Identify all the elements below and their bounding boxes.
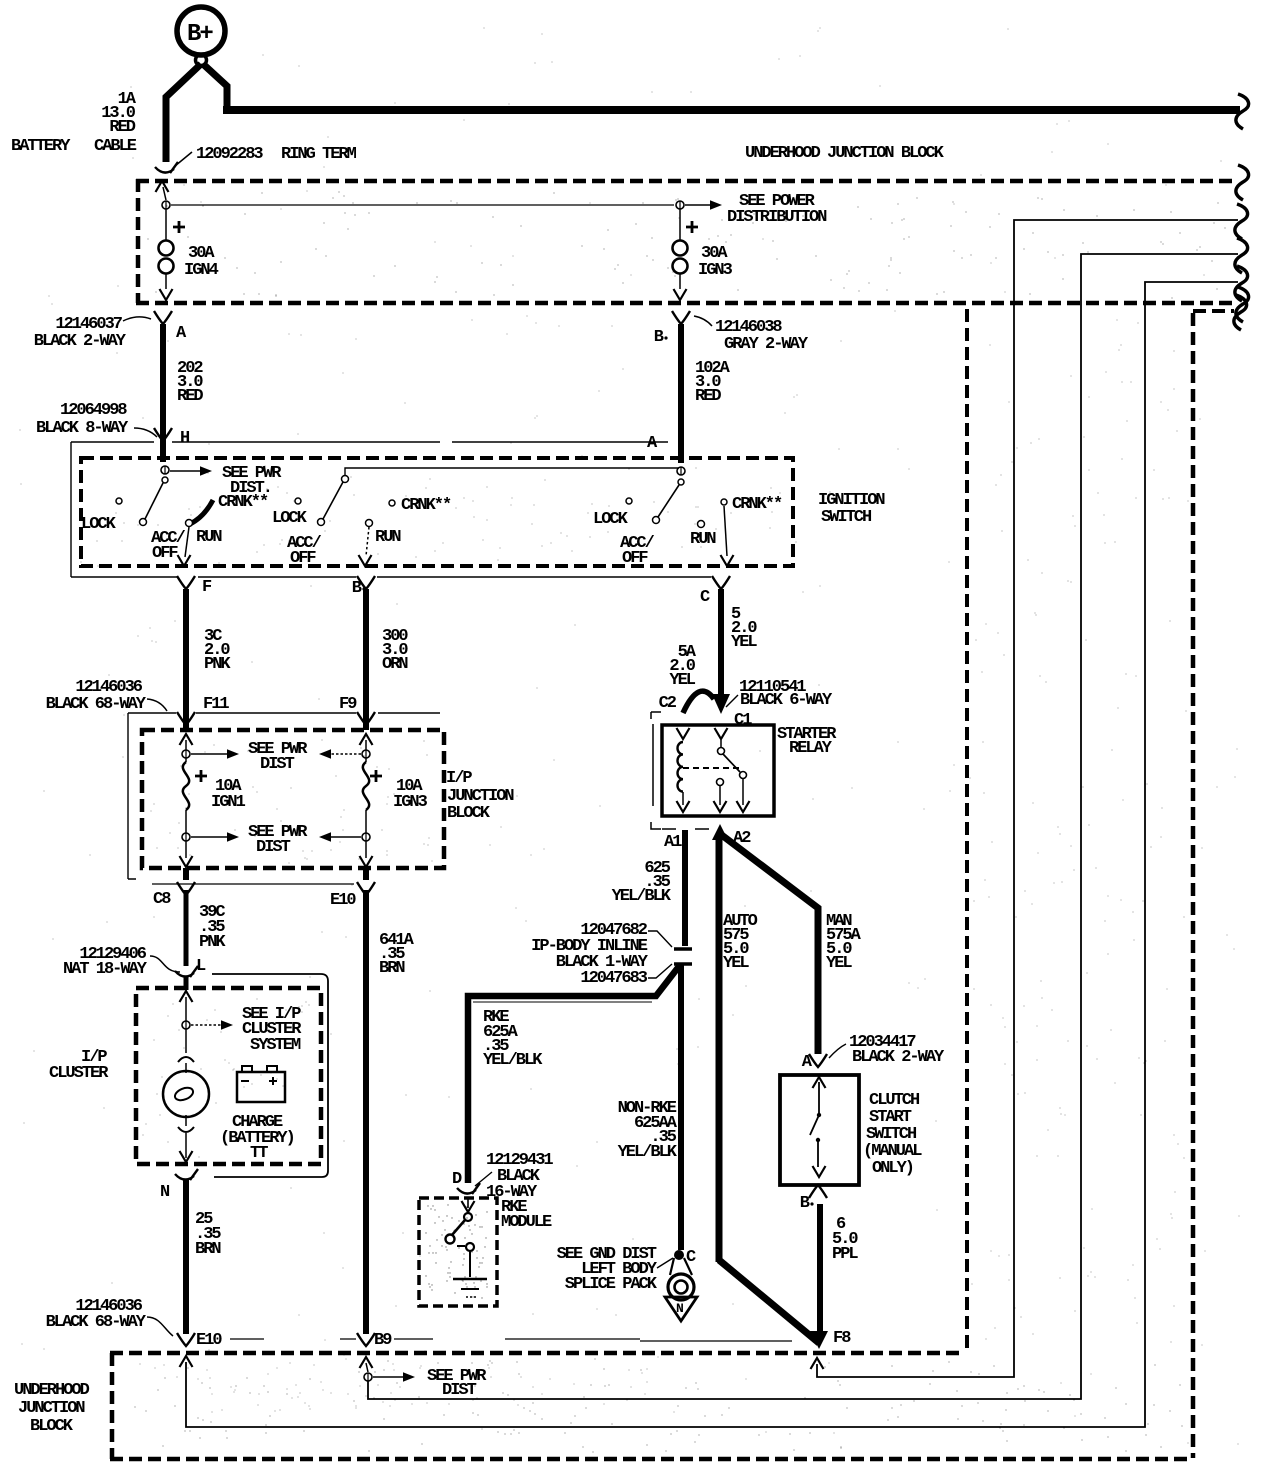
fuse 30A IGN4 [159, 209, 219, 300]
RKE module switch [467, 1199, 469, 1208]
svg-text:BLACK 2-WAY: BLACK 2-WAY [852, 1048, 945, 1067]
svg-text:C8: C8 [153, 890, 171, 909]
wire battery cable 1A 13.0 RED (left leg) [166, 64, 201, 162]
svg-text:BLOCK: BLOCK [447, 804, 491, 823]
connector face line (I/P JB top) [128, 712, 440, 714]
connector face line (bottom) [230, 1339, 792, 1341]
svg-text:YEL/BLK: YEL/BLK [618, 1143, 678, 1162]
underhood junction block (bottom) dashed outline [110, 1351, 965, 1356]
I/P junction block dashed box [142, 730, 444, 868]
wire bus to IGN3 fuse [171, 204, 674, 206]
svg-text:DIST: DIST [260, 755, 295, 774]
relay linkage (dashed) [683, 767, 742, 769]
svg-text:F8: F8 [833, 1329, 851, 1348]
svg-text:IGN3: IGN3 [698, 261, 733, 280]
svg-text:E10: E10 [330, 891, 356, 910]
ground N triangle [665, 1297, 697, 1321]
svg-text:12047683: 12047683 [580, 969, 647, 988]
label MAN 575A 5.0 YEL [826, 912, 862, 973]
ignition switch section 1 [81, 432, 282, 566]
svg-text:RED: RED [109, 118, 135, 137]
svg-text:MODULE: MODULE [501, 1213, 552, 1232]
svg-text:RED: RED [177, 387, 203, 406]
svg-text:TT: TT [250, 1144, 268, 1163]
svg-text:CRNK**: CRNK** [401, 496, 451, 515]
underhood junction block (top) dashed outline [136, 179, 1238, 303]
svg-text:DISTRIBUTION: DISTRIBUTION [727, 208, 827, 227]
RKE module ground [469, 1251, 471, 1277]
svg-text:BRN: BRN [195, 1240, 221, 1259]
wire 39C .35 PNK [184, 890, 189, 966]
svg-text:YEL/BLK: YEL/BLK [483, 1051, 543, 1070]
connector terminal N [175, 1169, 198, 1180]
connector 12146036 black 68-way (E10/B9) [46, 1297, 147, 1332]
ignition switch section 3 [593, 459, 782, 568]
svg-text:OFF: OFF [152, 544, 178, 563]
svg-text:BLACK 8-WAY: BLACK 8-WAY [36, 419, 129, 438]
svg-text:OFF: OFF [290, 549, 316, 568]
relay connector brackets [651, 712, 661, 829]
connector terminal B [809, 1185, 827, 1198]
svg-text:B9: B9 [374, 1331, 392, 1350]
relay switch contacts [715, 728, 728, 739]
connector face line (I/P JB bottom) C8/E10 [152, 883, 354, 885]
svg-text:12092283: 12092283 [196, 145, 263, 164]
RKE module dashed box [419, 1198, 497, 1306]
svg-text:BLACK 2-WAY: BLACK 2-WAY [34, 332, 127, 351]
wire AUTO diagonal to F8 [719, 1260, 819, 1343]
wire entry arrow into block [156, 181, 169, 192]
node splice in cluster [182, 1021, 190, 1029]
charge indicator lamp [185, 1029, 187, 1053]
fuse 10A IGN3 column [363, 713, 369, 730]
B9 wire routing inside block [360, 1357, 373, 1368]
connector terminal B [357, 576, 375, 589]
continuation break symbol (top bus) [1236, 94, 1249, 129]
svg-text:OFF: OFF [622, 549, 648, 568]
fuse 10A IGN1 column [183, 713, 189, 730]
svg-text:PNK: PNK [199, 933, 226, 952]
svg-text:BRN: BRN [379, 959, 405, 978]
node splice at fuse IGN4 feed [162, 201, 170, 209]
connector face line (ignition switch top) [71, 441, 668, 443]
svg-text:SWITCH: SWITCH [821, 508, 872, 527]
wire NON-RKE 625AA .35 YEL/BLK [678, 965, 684, 1250]
connector 12146036 black 68-way (F11/F9) [46, 678, 147, 714]
wire battery feed to underhood junction block (thick top bus) [203, 64, 227, 109]
wire RKE 625A .35 YEL/BLK branch [468, 965, 680, 1183]
connector 12129406 nat 18-way (L) [63, 945, 148, 979]
svg-text:C1: C1 [734, 711, 752, 730]
svg-text:DIST: DIST [442, 1381, 477, 1400]
battery icon [237, 1072, 285, 1102]
svg-text:RING TERM: RING TERM [281, 145, 357, 164]
svg-text:YEL: YEL [669, 671, 695, 690]
svg-text:YEL: YEL [826, 954, 852, 973]
wire 641A .35 BRN [363, 890, 369, 1334]
svg-text:UNDERHOOD: UNDERHOOD [14, 1381, 90, 1400]
label battery cable [11, 90, 137, 156]
connector face line (ignition switch bottom) [71, 576, 711, 578]
svg-text:DIST: DIST [256, 838, 291, 857]
connector 12146037 black 2-way (A) [154, 311, 172, 324]
svg-text:C2: C2 [659, 694, 677, 713]
underhood junction block continuation dashed lines [965, 309, 969, 1351]
svg-text:IGN3: IGN3 [393, 793, 428, 812]
connector 12146038 gray 2-way (B) [672, 311, 690, 324]
node splice at fuse IGN3 feed [676, 201, 684, 209]
svg-text:CRNK**: CRNK** [732, 495, 782, 514]
svg-text:SPLICE PACK: SPLICE PACK [565, 1275, 658, 1294]
terminal F8 arrow [810, 1331, 828, 1349]
svg-text:NAT 18-WAY: NAT 18-WAY [63, 960, 148, 979]
splice C / ground ring terminal [674, 1250, 684, 1260]
continuation break (box bottom edge) [1236, 287, 1249, 322]
fuse 30A IGN3 [673, 209, 733, 300]
svg-text:JUNCTION: JUNCTION [18, 1399, 85, 1418]
svg-text:F9: F9 [339, 695, 357, 714]
clutch start switch box [780, 1075, 859, 1185]
svg-text:BLACK 68-WAY: BLACK 68-WAY [46, 1313, 147, 1332]
wire 5 2.0 YEL [718, 589, 724, 700]
svg-text:RED: RED [695, 387, 721, 406]
connector terminal F [177, 576, 195, 589]
connector terminal C [712, 576, 730, 589]
ignition switch dashed box [81, 458, 793, 566]
svg-text:YEL: YEL [731, 633, 757, 652]
wire into cluster [184, 977, 189, 990]
svg-text:UNDERHOOD JUNCTION BLOCK: UNDERHOOD JUNCTION BLOCK [745, 144, 945, 163]
svg-text:ORN: ORN [382, 655, 408, 674]
arrow see I/P cluster system [191, 1024, 222, 1026]
svg-text:BATTERY: BATTERY [11, 137, 71, 156]
svg-text:LOCK: LOCK [272, 509, 308, 528]
svg-text:LOCK: LOCK [81, 515, 117, 534]
continuation break (box top edge) [1236, 165, 1249, 200]
svg-text:RUN: RUN [375, 528, 401, 547]
connector 12047682/12047683 ip-body inline black 1-way [674, 947, 692, 951]
svg-text:IGN4: IGN4 [184, 261, 219, 280]
wire 575A MAN to clutch switch (diagonal) [719, 833, 818, 1054]
svg-text:LOCK: LOCK [593, 510, 629, 529]
I/P cluster offset outline [212, 974, 328, 1171]
svg-text:YEL/BLK: YEL/BLK [612, 887, 672, 906]
svg-text:I/P: I/P [446, 769, 472, 788]
arrow see power distribution [685, 204, 710, 206]
wire 575 AUTO down [716, 835, 723, 1262]
wire 202 3.0 RED [160, 324, 166, 432]
connector 12110541 black 6-way arrow into C1 [712, 694, 730, 714]
svg-text:F11: F11 [203, 695, 229, 714]
connector 12092283 ring terminal [155, 162, 178, 173]
svg-text:PPL: PPL [832, 1245, 858, 1264]
svg-text:ONLY): ONLY) [872, 1159, 913, 1178]
svg-text:IGN1: IGN1 [211, 793, 246, 812]
I/P cluster dashed box [136, 988, 321, 1164]
starter relay box [662, 725, 774, 816]
wire 6 5.0 PPL [817, 1204, 823, 1340]
svg-text:B+: B+ [187, 21, 213, 48]
E10 wire routing inside block [180, 1356, 193, 1367]
wire 3C 2.0 PNK [183, 589, 189, 713]
wire 25 .35 BRN [183, 1180, 189, 1334]
svg-text:12064998: 12064998 [60, 401, 127, 420]
wire 102A 3.0 RED [678, 324, 684, 459]
svg-text:YEL: YEL [723, 954, 749, 973]
svg-text:CABLE: CABLE [94, 137, 137, 156]
relay coil [677, 728, 690, 739]
ignition switch section 2 [272, 468, 679, 568]
svg-text:RUN: RUN [690, 530, 716, 549]
wire 625 .35 YEL/BLK from A1 [682, 830, 688, 946]
svg-text:CRNK**: CRNK** [218, 493, 268, 512]
svg-text:BLACK 6-WAY: BLACK 6-WAY [740, 691, 833, 710]
svg-text:PNK: PNK [204, 655, 231, 674]
svg-text:BLACK 68-WAY: BLACK 68-WAY [46, 695, 147, 714]
svg-text:RUN: RUN [196, 528, 222, 547]
svg-text:BLOCK: BLOCK [30, 1417, 74, 1436]
svg-text:RELAY: RELAY [789, 739, 833, 758]
svg-text:CLUSTER: CLUSTER [49, 1064, 109, 1083]
svg-text:A1: A1 [664, 833, 682, 852]
ground ring terminal G [670, 1258, 692, 1275]
wire 300 3.0 ORN [363, 589, 369, 713]
wire 5A 2.0 YEL (branch to C2, crossover hump) [683, 691, 714, 713]
svg-text:N: N [676, 1301, 683, 1316]
A2 terminal arrow [712, 824, 728, 840]
label AUTO 575 5.0 YEL [723, 912, 758, 973]
battery B+ terminal [177, 7, 225, 66]
svg-text:E10: E10 [196, 1331, 222, 1350]
svg-text:SYSTEM: SYSTEM [250, 1036, 301, 1055]
svg-text:GRAY 2-WAY: GRAY 2-WAY [724, 335, 809, 354]
F8 wire routing inside block [811, 1358, 824, 1369]
